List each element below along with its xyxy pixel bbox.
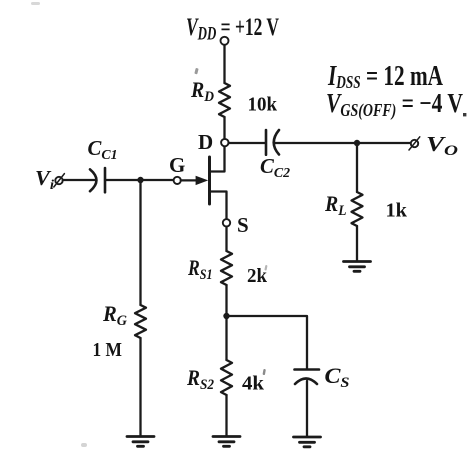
svg-text:S: S xyxy=(237,213,249,237)
node D terminal circle xyxy=(221,139,228,146)
faint speck bottom-left xyxy=(81,443,87,447)
capacitor CC2 straight plate xyxy=(265,130,268,155)
capacitor CC1 straight plate xyxy=(104,168,107,192)
svg-text:VDD = +12 V: VDD = +12 V xyxy=(186,14,279,45)
resistor RG xyxy=(135,305,146,338)
junction output node xyxy=(354,140,360,146)
resistor RS2 xyxy=(221,360,232,395)
svg-text:VO: VO xyxy=(426,132,458,159)
faint tick after 4k xyxy=(262,369,265,375)
svg-text:D: D xyxy=(198,130,213,154)
capacitor CS curved plate xyxy=(295,379,317,385)
svg-text:RS1: RS1 xyxy=(187,255,212,283)
wire RS2 to ground xyxy=(225,395,227,436)
input terminal Vi xyxy=(55,177,62,184)
resistor RS1 xyxy=(221,251,232,285)
transistor Q1 JFET channel bar xyxy=(208,157,211,204)
wire RS1 to junction xyxy=(225,285,227,360)
output terminal Vo xyxy=(411,140,418,147)
svg-text:10k: 10k xyxy=(248,94,278,116)
wire Vi to CC1 xyxy=(63,179,96,181)
wire node D to CC2 xyxy=(229,142,266,144)
ground under RL xyxy=(344,262,371,272)
svg-text:RD: RD xyxy=(190,77,214,105)
wire JFET source to node S xyxy=(210,192,227,220)
svg-text:4k: 4k xyxy=(242,373,265,395)
resistor RL xyxy=(352,192,363,226)
wire output node down to RL xyxy=(356,143,358,192)
dot after V in VGS line xyxy=(463,113,466,116)
wire CC1 to gate node xyxy=(105,179,173,181)
wire RL to ground xyxy=(356,226,358,261)
ground under CS xyxy=(294,437,321,447)
faint tick after 2k xyxy=(264,265,267,271)
gate arrowhead xyxy=(196,176,209,185)
svg-text:CC1: CC1 xyxy=(88,136,118,163)
svg-text:1 M: 1 M xyxy=(93,339,123,361)
capacitor CC1 curved plate xyxy=(90,169,96,191)
wire RD bottom to node D xyxy=(223,117,225,139)
node S terminal circle xyxy=(223,219,230,226)
svg-text:RG: RG xyxy=(102,301,127,329)
wire input node down to RG xyxy=(139,180,141,305)
junction input node xyxy=(137,177,143,183)
wire node D to JFET drain xyxy=(210,147,225,172)
svg-text:RS2: RS2 xyxy=(186,365,214,393)
svg-text:Vi: Vi xyxy=(35,166,54,193)
wire RG to ground xyxy=(139,338,141,436)
wire node S down to RS1 xyxy=(225,227,227,251)
wire VDD terminal to RD top xyxy=(223,45,225,83)
wire CC2 to output terminal xyxy=(275,142,411,144)
wire gate lead xyxy=(181,179,197,181)
svg-text:G: G xyxy=(169,153,185,177)
capacitor CC2 curved plate xyxy=(274,130,279,155)
svg-text:1k: 1k xyxy=(386,200,408,222)
supply terminal VDD xyxy=(221,37,229,45)
svg-text:CC2: CC2 xyxy=(260,154,290,181)
svg-text:CS: CS xyxy=(325,363,350,391)
svg-text:RL: RL xyxy=(324,191,346,219)
capacitor CS straight plate xyxy=(295,368,320,371)
wire divider node to CS xyxy=(227,316,308,369)
resistor RD xyxy=(219,83,230,117)
wire CS to ground xyxy=(306,381,308,437)
faint scan speck top-left xyxy=(31,2,40,5)
faint scan tick above RD xyxy=(194,68,198,75)
junction source divider node xyxy=(223,313,229,319)
svg-text:VGS(OFF) = −4 V: VGS(OFF) = −4 V xyxy=(326,88,463,120)
ground under RG xyxy=(127,437,154,447)
ground under RS2 xyxy=(213,437,240,447)
node G terminal circle xyxy=(174,177,181,184)
